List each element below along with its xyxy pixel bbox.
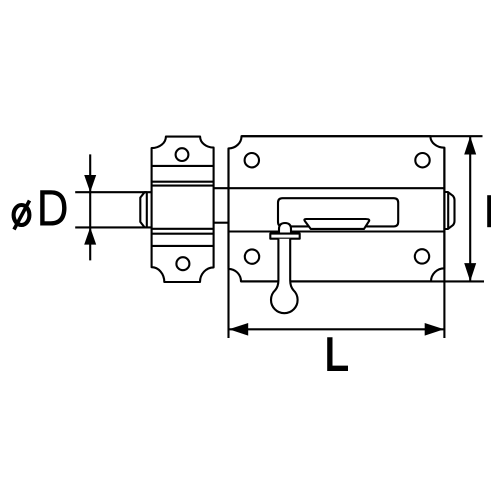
- dimension l line: [469, 136, 471, 281]
- label ø (drawn: ellipse + slash): [14, 201, 30, 230]
- barrel bottom edge across main plate: [229, 230, 445, 232]
- bolt guide slot: [278, 198, 398, 226]
- bolt leaf spring dish: [304, 219, 369, 229]
- bolt rod bottom edge (left section, also øD extension line): [75, 226, 151, 228]
- knob stem and ball: [271, 239, 298, 314]
- dimension L line: [229, 328, 445, 330]
- keeper loop band bottom outer line: [152, 233, 214, 235]
- bolt rod right tip inner edge: [447, 192, 449, 229]
- L left arrowhead: [229, 323, 248, 336]
- L right arrowhead: [425, 323, 444, 336]
- keeper upper separation line: [152, 165, 214, 167]
- keeper loop band top inner line: [152, 185, 214, 187]
- main plate bottom edge with l extension line: [242, 280, 485, 282]
- label L (vector glyph): [327, 337, 348, 371]
- l bottom arrowhead: [464, 263, 476, 281]
- label D (vector glyph): [40, 190, 66, 225]
- label l (vector glyph): [487, 195, 491, 227]
- keeper top screw hole: [176, 148, 189, 161]
- øD top arrowhead: [84, 175, 96, 192]
- øD bottom arrowhead: [84, 227, 96, 244]
- main plate top edge line with l extension line: [242, 135, 483, 137]
- bolt rod right tip cap: [444, 192, 454, 229]
- bolt rod left end cap: [140, 192, 147, 227]
- main plate top-left screw hole: [245, 153, 259, 167]
- keeper loop band top outer line: [152, 181, 214, 183]
- bolt rod top edge (gap and across main plate): [214, 187, 445, 189]
- main plate left edge with L extension line: [227, 148, 229, 338]
- main plate bottom-left screw hole: [245, 249, 259, 263]
- keeper bottom screw hole: [176, 257, 189, 270]
- bolt rod top edge (left section, also øD extension line): [75, 191, 151, 193]
- dimension øD line: [89, 154, 91, 260]
- main plate top-right screw hole: [415, 153, 429, 167]
- main plate right edge with L extension line: [443, 148, 445, 338]
- keeper plate outline: [152, 137, 214, 282]
- bolt rod left end cap inner edge: [146, 192, 148, 227]
- knob collar: [270, 234, 299, 239]
- main plate outline: [229, 136, 445, 281]
- bolt rod bottom edge (gap section): [214, 222, 229, 224]
- knob pin dome: [279, 223, 291, 234]
- main plate bottom-right screw hole: [415, 249, 429, 263]
- l top arrowhead: [464, 136, 476, 154]
- keeper lower separation line: [152, 245, 214, 247]
- keeper loop band bottom inner line: [152, 228, 214, 230]
